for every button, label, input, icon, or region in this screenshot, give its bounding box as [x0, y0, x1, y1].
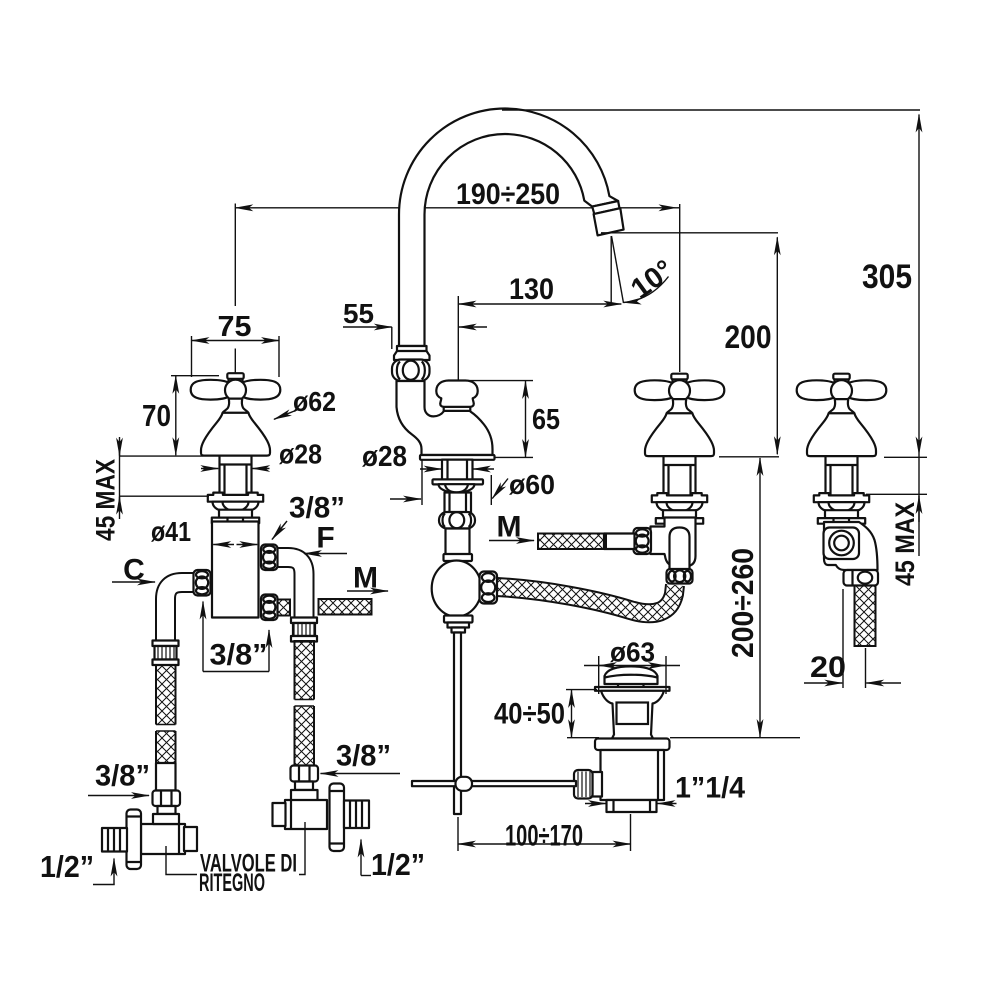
svg-text:M: M: [353, 562, 378, 595]
body knob: [436, 381, 477, 407]
rod link clevis: [456, 777, 473, 791]
drain knurled knob: [593, 772, 603, 797]
left valve wall plate: [127, 810, 142, 870]
C nut on body: [194, 570, 211, 596]
C hose ferrule: [153, 641, 179, 666]
M nut on body: [261, 595, 278, 621]
ball tee side nut: [480, 572, 498, 604]
horizontal actuating rod: [412, 781, 576, 786]
tee collar: [444, 554, 473, 561]
dim ø62: [274, 386, 336, 419]
svg-text:75: 75: [218, 311, 252, 343]
dim 10° angle: [611, 236, 679, 306]
right valve wall plate: [330, 784, 345, 852]
dim 65: [457, 381, 560, 458]
body base: [420, 455, 495, 460]
svg-text:1”1/4: 1”1/4: [675, 772, 745, 805]
svg-text:200÷260: 200÷260: [725, 548, 760, 658]
C hose end nut: [153, 791, 181, 807]
F braided hose: [295, 641, 315, 766]
label C: [112, 554, 155, 587]
dim ø28 centre: [362, 441, 494, 473]
svg-text:65: 65: [532, 404, 560, 436]
svg-text:45 MAX: 45 MAX: [890, 502, 920, 586]
spout decorative ring: [392, 360, 430, 382]
label 1/2 left: [40, 849, 115, 885]
svg-text:20: 20: [810, 651, 846, 684]
svg-text:ø28: ø28: [362, 441, 407, 473]
dim 200÷260: [670, 458, 800, 738]
lower tube: [446, 529, 470, 555]
ball tee right hose (braided): [497, 585, 675, 613]
svg-text:1/2”: 1/2”: [40, 849, 94, 884]
pull rod: [454, 633, 461, 815]
svg-text:M: M: [497, 511, 522, 544]
far-right braided hose: [855, 586, 876, 647]
ball tee bottom collars: [444, 616, 473, 623]
flange nut: [439, 484, 475, 493]
M supply cut hose bar: [319, 599, 372, 615]
svg-text:ø62: ø62: [293, 386, 336, 417]
svg-text:1/2”: 1/2”: [371, 847, 425, 882]
left valve 1/2 pipe: [102, 828, 127, 852]
dim ø41: [151, 516, 257, 547]
right check valve body: [285, 800, 327, 829]
right valve 1/2 pipe: [344, 801, 369, 829]
C braided hose: [156, 665, 176, 763]
svg-text:40÷50: 40÷50: [494, 698, 565, 731]
dim ø28 left: [201, 439, 322, 470]
left check valve body: [141, 824, 185, 854]
svg-text:ø60: ø60: [509, 469, 555, 500]
F hose ferrule: [291, 618, 317, 642]
far-right bottom nut: [844, 570, 879, 586]
label 3/8 left valve: [88, 760, 150, 796]
left handle (cross): [191, 373, 281, 523]
label M right: [489, 511, 534, 544]
svg-text:RITEGNO: RITEGNO: [199, 869, 265, 897]
dim 1"1/4: [585, 772, 745, 805]
C hose elbow (plain): [166, 583, 197, 642]
svg-text:70: 70: [142, 398, 171, 433]
dim 190÷250 line (under spout): [235, 204, 679, 373]
dim 40÷50: [494, 690, 599, 738]
dim 75: [192, 311, 280, 377]
svg-text:3/8”: 3/8”: [95, 760, 150, 793]
C hose plain end: [156, 763, 176, 791]
svg-text:F: F: [316, 522, 334, 555]
left body ø41: [212, 522, 259, 618]
far-right handle (cross): [797, 374, 887, 524]
svg-text:ø41: ø41: [151, 516, 191, 547]
drain top plate: [595, 687, 670, 691]
middle-right handle (cross): [635, 374, 725, 524]
dim 20: [804, 589, 901, 688]
label 3/8 top: [272, 492, 345, 540]
svg-text:ø63: ø63: [610, 637, 655, 668]
svg-text:3/8”: 3/8”: [336, 740, 391, 773]
lower decorative ring: [439, 512, 475, 529]
pop-up drain cap ø63: [605, 666, 658, 684]
svg-text:ø28: ø28: [279, 439, 322, 470]
right handle bottom nut: [667, 569, 693, 584]
svg-text:45 MAX: 45 MAX: [91, 459, 121, 541]
label VALVOLE DI RITEGNO: [166, 822, 305, 897]
dim 305: [502, 110, 920, 556]
svg-text:55: 55: [343, 298, 374, 329]
drain collar: [595, 739, 670, 751]
svg-text:305: 305: [862, 258, 912, 296]
mounting flange ø60: [433, 479, 484, 484]
svg-text:200: 200: [725, 319, 772, 355]
F hose elbow (plain): [276, 558, 304, 619]
dim 130: [458, 273, 621, 380]
dim 45 MAX right: [866, 457, 927, 586]
faucet body (S-shape): [397, 381, 493, 455]
dim 200: [601, 233, 779, 457]
label M left: [347, 562, 388, 595]
threaded stem ø28: [442, 460, 473, 480]
drain neck: [601, 691, 664, 739]
spout swan-neck tube: [399, 109, 618, 347]
dim 100÷170: [458, 814, 631, 853]
dim ø60: [390, 461, 555, 506]
label 1/2 right: [361, 840, 425, 883]
M cut hose stub: [278, 600, 291, 616]
svg-text:130: 130: [509, 273, 554, 306]
label 3/8 right valve: [321, 740, 401, 774]
spout collar: [397, 346, 427, 352]
dim 45 MAX left: [91, 437, 210, 541]
svg-text:3/8”: 3/8”: [289, 492, 345, 525]
right handle body elbow: [651, 518, 696, 567]
label 3/8 bottom bracket: [203, 602, 269, 672]
drain tailpiece 1"1/4: [607, 800, 657, 812]
svg-text:3/8”: 3/8”: [210, 639, 268, 672]
svg-text:100÷170: 100÷170: [505, 820, 583, 853]
dim ø63: [584, 637, 680, 695]
label F: [304, 522, 347, 555]
spout tip aerator: [592, 201, 619, 214]
right handle cut hose (to M): [604, 534, 635, 550]
F hose end nut: [291, 766, 319, 782]
dim 70: [142, 376, 219, 456]
svg-text:190÷250: 190÷250: [456, 178, 560, 211]
F nut on body: [261, 545, 278, 571]
svg-text:C: C: [123, 554, 145, 587]
lower stem: [445, 493, 472, 513]
ball tee: [432, 561, 482, 617]
far-right angle fitting: [824, 522, 878, 570]
right handle left nut: [634, 528, 652, 554]
dim 55: [343, 298, 487, 349]
drain body: [601, 750, 665, 800]
